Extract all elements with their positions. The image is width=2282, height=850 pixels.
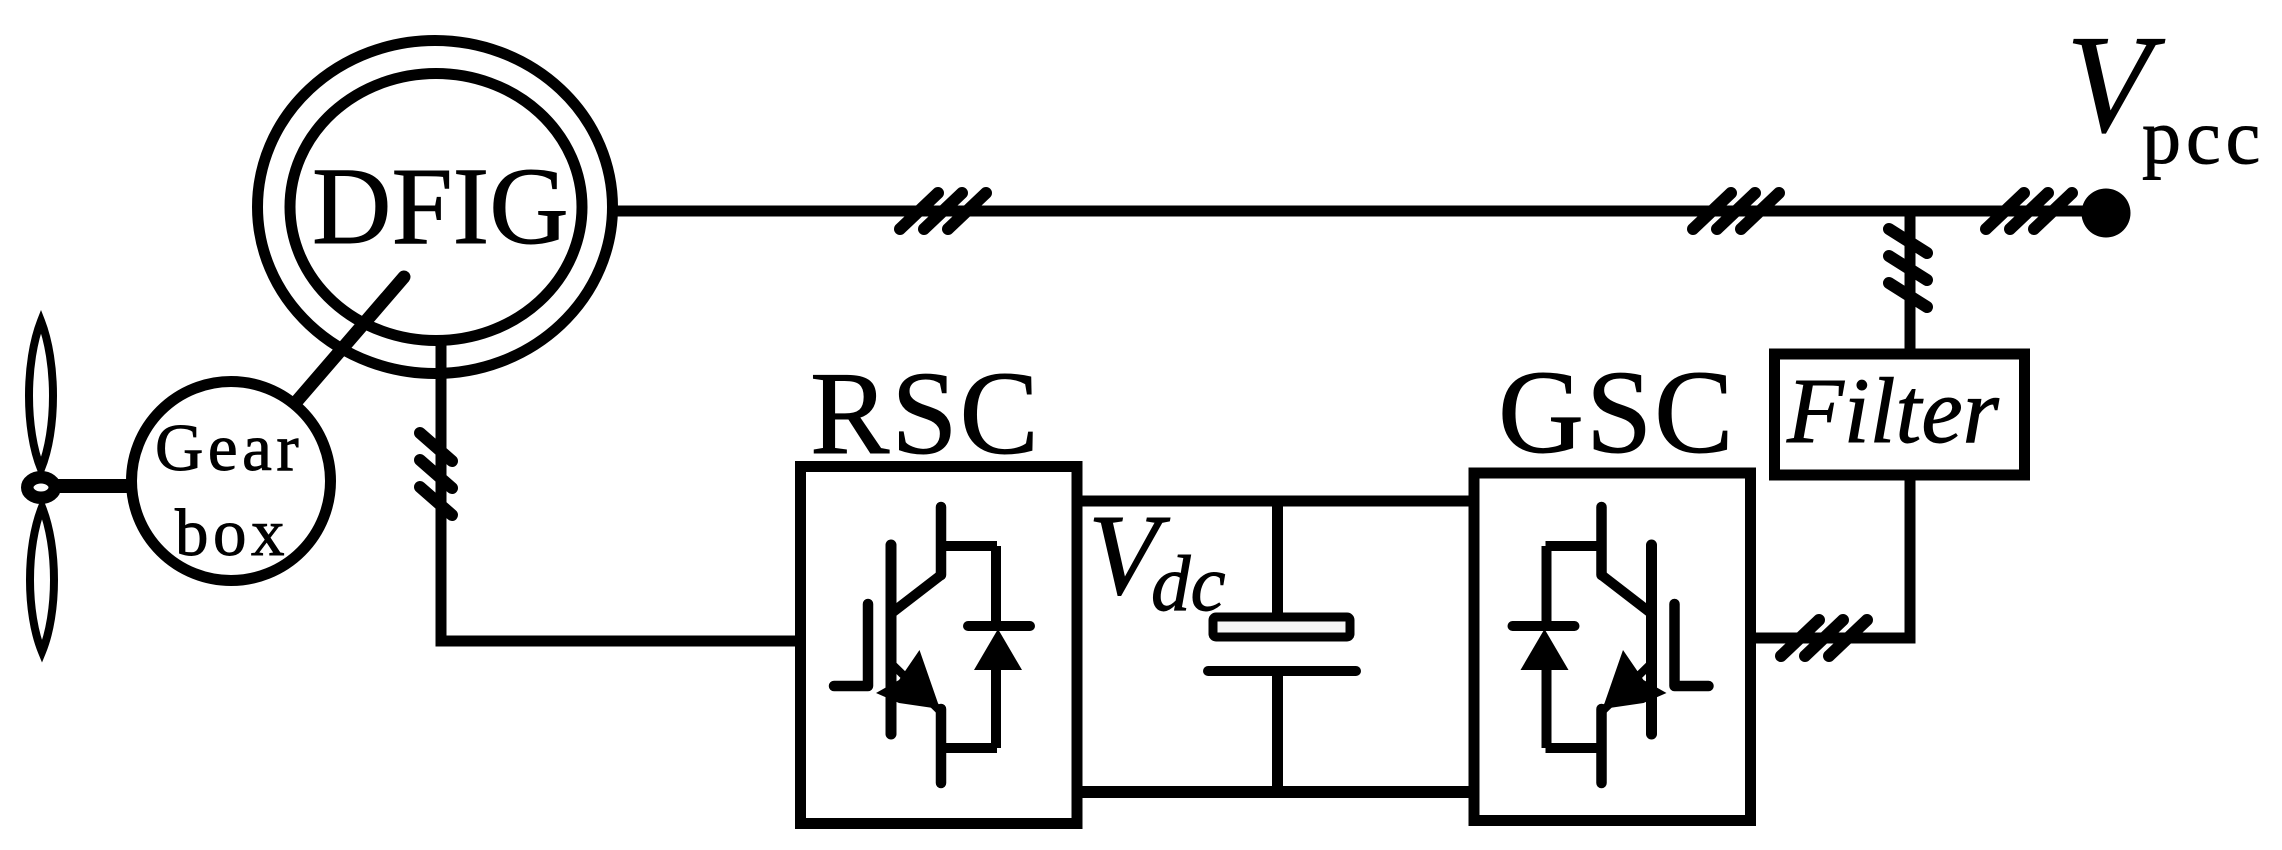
- DFIG rotor circle: [290, 74, 582, 341]
- gearbox-to-DFIG shaft: [297, 277, 404, 401]
- svg-text:dc: dc: [1151, 541, 1226, 628]
- RSC IGBT emitter lead: [936, 709, 947, 783]
- svg-text:GSC: GSC: [1498, 346, 1736, 478]
- RSC diode anode lead: [991, 665, 1001, 748]
- turbine shaft: [52, 479, 135, 493]
- turbine blade bottom: [30, 507, 54, 652]
- GSC IGBT bar: [1646, 545, 1657, 734]
- GSC IGBT emitter diagonal: [1603, 665, 1650, 711]
- capacitor top plate: [1213, 617, 1350, 637]
- RSC diode cathode bar: [968, 621, 1030, 631]
- GSC bottom connector: [1546, 743, 1602, 753]
- node Vpcc dot: [2082, 189, 2131, 238]
- capacitor bottom lead: [1272, 671, 1283, 792]
- svg-text:DFIG: DFIG: [312, 145, 569, 267]
- gearbox circle: [132, 382, 331, 581]
- svg-text:box: box: [175, 496, 289, 570]
- three-phase slashes on stator wire (group 1): [900, 193, 986, 229]
- GSC top connector: [1546, 541, 1602, 551]
- RSC IGBT emitter diagonal: [893, 665, 940, 711]
- GSC IGBT collector lead: [1596, 507, 1607, 575]
- GSC diode triangle: [1521, 629, 1569, 670]
- GSC IGBT collector diagonal: [1602, 575, 1650, 612]
- GSC internals (mirrored IGBT + diode): [1513, 507, 1709, 783]
- capacitor bottom plate: [1208, 666, 1356, 676]
- GSC IGBT emitter arrow: [1603, 650, 1667, 709]
- RSC IGBT collector diagonal: [893, 575, 941, 612]
- turbine hub: [27, 477, 55, 498]
- GSC IGBT emitter lead: [1596, 709, 1607, 783]
- GSC diode cathode bar: [1513, 621, 1575, 631]
- capacitor Vdc: top lead: [1272, 501, 1283, 615]
- svg-text:Filter: Filter: [1786, 360, 2000, 463]
- DC link bottom rail: [1077, 786, 1474, 798]
- svg-text:RSC: RSC: [810, 347, 1041, 479]
- rotor wire from DFIG to RSC: [441, 341, 800, 641]
- RSC IGBT collector lead: [936, 507, 947, 575]
- GSC IGBT gate lead: [1675, 604, 1709, 686]
- GSC diode anode lead: [1542, 665, 1552, 748]
- svg-text:pcc: pcc: [2142, 93, 2265, 180]
- filter box: [1775, 354, 2025, 475]
- wire: PCC branch down to filter: [1905, 211, 1916, 356]
- three-phase slashes on rotor wire: [420, 433, 452, 515]
- GSC diode cathode lead: [1542, 546, 1552, 626]
- DC link top rail: [1077, 496, 1474, 507]
- three-phase slashes on GSC output wire: [1781, 620, 1867, 656]
- RSC converter box: [801, 467, 1078, 824]
- RSC bottom connector: [941, 743, 997, 753]
- GSC converter box: [1474, 473, 1751, 821]
- wire: filter to GSC: [1752, 475, 1910, 638]
- three-phase slashes on stator wire (group 2): [1693, 193, 1779, 229]
- RSC IGBT emitter arrow: [876, 650, 940, 709]
- RSC diode cathode lead: [991, 546, 1001, 626]
- RSC diode triangle: [974, 629, 1022, 670]
- gearbox label: [155, 411, 303, 570]
- RSC IGBT gate lead: [834, 604, 868, 686]
- turbine blade top: [29, 321, 53, 469]
- svg-text:Gear: Gear: [155, 411, 303, 485]
- three-phase slashes on stator wire (group 3): [1986, 193, 2072, 229]
- RSC top connector: [941, 541, 997, 551]
- DFIG stator circle: [258, 41, 613, 374]
- stator wire to PCC: [612, 206, 2106, 217]
- RSC IGBT bar: [886, 545, 897, 734]
- three-phase slashes on filter branch: [1889, 229, 1927, 307]
